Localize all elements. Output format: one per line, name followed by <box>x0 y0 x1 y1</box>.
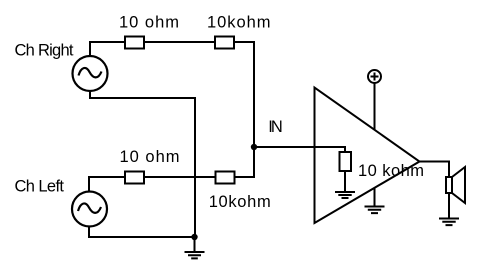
svg-text:10 ohm: 10 ohm <box>119 14 179 32</box>
svg-text:10kohm: 10kohm <box>209 193 271 211</box>
svg-text:Ch Left: Ch Left <box>15 178 65 196</box>
svg-text:10 ohm: 10 ohm <box>120 148 180 166</box>
svg-text:Ch Right: Ch Right <box>15 42 74 60</box>
svg-text:10kohm: 10kohm <box>207 14 271 32</box>
svg-text:10 kohm: 10 kohm <box>358 162 424 180</box>
svg-text:IN: IN <box>268 118 283 136</box>
